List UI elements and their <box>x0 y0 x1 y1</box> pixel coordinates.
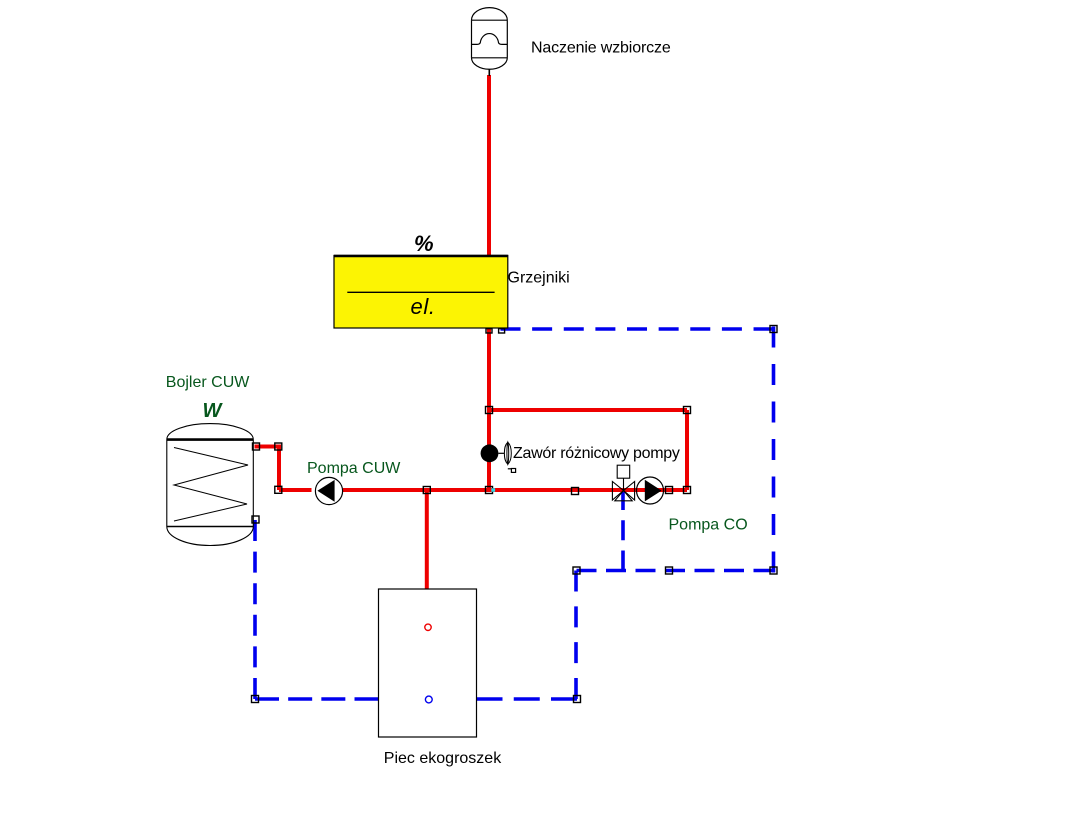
expansion vessel Naczenie wzbiorcze <box>472 8 508 76</box>
mixing valve with actuator <box>612 465 634 501</box>
wire blue dashed return from radiators (top) <box>501 327 774 331</box>
wire blue dashed left riser from boiler <box>253 520 257 699</box>
wire red main horizontal pipe <box>279 488 687 492</box>
svg-text:Piec ekogroszek: Piec ekogroszek <box>384 750 502 767</box>
furnace red outlet port <box>425 624 431 630</box>
svg-text:%: % <box>414 231 434 256</box>
svg-text:Naczenie wzbiorcze: Naczenie wzbiorcze <box>531 40 671 57</box>
node handles (hollow squares) <box>252 326 778 703</box>
svg-text:W: W <box>203 400 224 422</box>
svg-text:Pompa CO: Pompa CO <box>669 516 748 533</box>
wire blue dashed bottom left horizontal <box>255 697 379 701</box>
furnace blue return port <box>425 696 432 703</box>
wire red pipe vessel to radiator box <box>487 75 491 255</box>
svg-text:Bojler CUW: Bojler CUW <box>166 374 250 391</box>
cyan marker at junction <box>491 488 495 492</box>
wire blue dashed right riser <box>772 327 776 573</box>
wire red pipe radiator box to main junction <box>487 329 491 493</box>
furnace Piec ekogroszek <box>379 589 477 737</box>
wire red loop top horizontal <box>489 408 687 412</box>
wire blue dashed middle riser <box>574 571 578 700</box>
svg-text:el.: el. <box>411 294 436 319</box>
wire blue dashed bottom right horizontal <box>477 697 578 701</box>
svg-text:Grzejniki: Grzejniki <box>508 270 570 287</box>
svg-text:Pompa CUW: Pompa CUW <box>307 460 401 477</box>
junction node black dot <box>481 444 499 462</box>
pump Pompa CUW <box>312 477 344 505</box>
wire red corner vertical near boiler <box>277 445 281 491</box>
differential valve symbol <box>498 442 515 472</box>
radiator block Grzejniki (yellow) <box>334 255 508 328</box>
wire red furnace feed <box>425 490 429 590</box>
wire blue dashed from mixing valve down <box>621 490 625 571</box>
wire red loop right vertical <box>685 410 689 490</box>
boiler tank Bojler CUW <box>167 424 254 546</box>
pump Pompa CO <box>637 477 664 504</box>
wire blue dashed middle horizontal <box>577 569 774 573</box>
svg-text:Zawór różnicowy pompy: Zawór różnicowy pompy <box>513 445 680 462</box>
wire red boiler outlet stub <box>255 445 280 449</box>
